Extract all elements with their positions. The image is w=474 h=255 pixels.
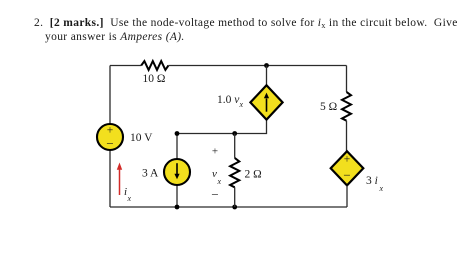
node dot at 3A bottom	[175, 205, 180, 210]
middle wire	[177, 120, 267, 134]
node dot at 3A top	[175, 131, 180, 136]
wire below 5ohm	[346, 121, 348, 152]
svg-text:+: +	[107, 124, 114, 136]
resistor R 10ohm zigzag	[141, 61, 168, 70]
node dot at 2ohm bottom	[232, 205, 237, 210]
svg-text:10 V: 10 V	[130, 132, 153, 144]
svg-text:your answer is Amperes (A).: your answer is Amperes (A).	[45, 31, 185, 43]
wire: left vertical	[109, 66, 111, 125]
svg-text:−: −	[106, 136, 113, 151]
voltage source V1 10V	[97, 124, 123, 150]
svg-text:x: x	[127, 194, 132, 203]
resistor R 2ohm zigzag	[230, 158, 239, 187]
svg-text:x: x	[217, 177, 222, 186]
svg-text:5 Ω: 5 Ω	[320, 101, 337, 113]
svg-text:x: x	[239, 100, 244, 109]
resistor R 2ohm branch wires	[234, 134, 236, 158]
svg-text:x: x	[379, 184, 384, 193]
wire below D2	[346, 185, 348, 207]
wire: top horizontal right of resistor	[168, 65, 346, 67]
dependent current source D1 diamond	[250, 85, 282, 119]
svg-text:−: −	[211, 187, 218, 202]
dependent current source D1 1.0vx: stem to top wire	[266, 66, 268, 86]
node dot on top wire	[264, 63, 269, 68]
svg-text:+: +	[212, 146, 218, 158]
dependent voltage source D2 3ix diamond	[331, 151, 364, 185]
svg-text:3 A: 3 A	[142, 168, 159, 180]
svg-text:2. [2 marks.] Use the node-v: 2. [2 marks.] Use the node-voltage metho…	[34, 17, 458, 30]
wire: bottom horizontal	[110, 206, 347, 208]
current source I1 3A	[176, 134, 178, 160]
svg-text:10 Ω: 10 Ω	[143, 73, 166, 85]
svg-text:1.0 v: 1.0 v	[217, 94, 240, 106]
svg-text:3 i: 3 i	[366, 175, 378, 187]
svg-text:+: +	[344, 154, 351, 166]
wire: top horizontal with gap for resistor	[110, 65, 141, 67]
svg-text:2 Ω: 2 Ω	[245, 169, 262, 181]
svg-text:v: v	[212, 168, 217, 180]
resistor R 5ohm zigzag	[342, 92, 351, 121]
node dot at 2ohm top	[232, 131, 237, 136]
svg-text:−: −	[343, 168, 350, 183]
arrow inside D1	[266, 99, 268, 112]
right branch top wire	[346, 66, 348, 93]
current arrow i_x (red)	[119, 169, 121, 196]
